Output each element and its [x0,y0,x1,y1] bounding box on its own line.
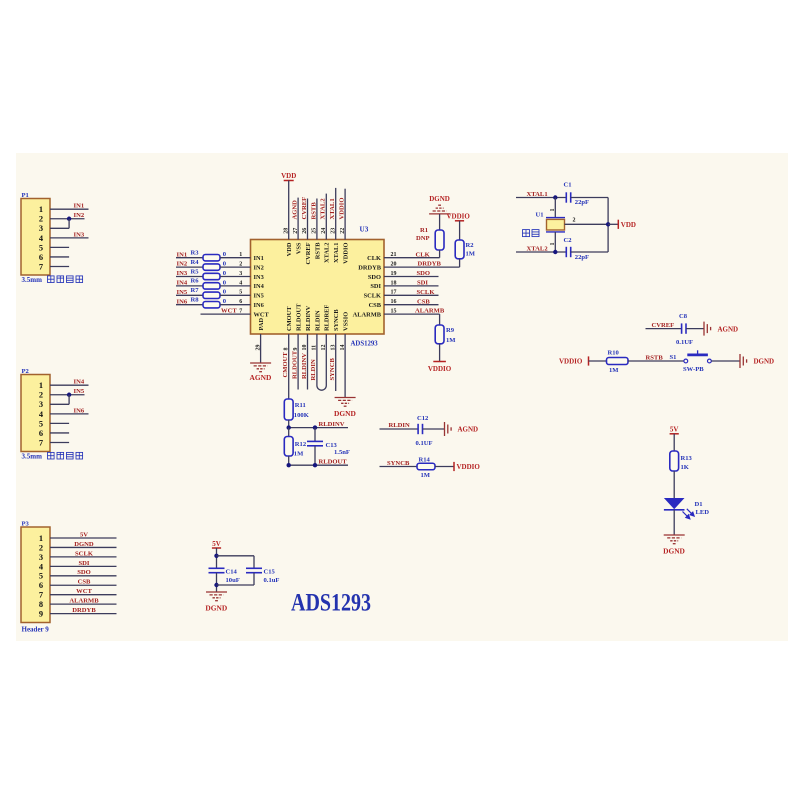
junction R11/R12 [287,425,291,429]
svg-text:R9: R9 [446,327,455,334]
resistor R2 [455,240,474,259]
svg-text:VDDIO: VDDIO [339,198,346,220]
svg-text:DGND: DGND [74,541,94,548]
wire P3 pin7 [50,594,117,596]
svg-text:U1: U1 [536,212,544,219]
svg-text:WCT: WCT [254,311,270,318]
svg-text:R8: R8 [191,297,200,304]
junction VDD bus [606,222,610,226]
wire U3 pin 25 (RSTB) [316,199,318,240]
svg-text:RLDIN: RLDIN [310,359,317,380]
svg-text:2: 2 [39,391,43,400]
wire IN3 to R5 [176,276,203,278]
wire U3 pin 27 (AGND) [297,198,299,240]
svg-text:8: 8 [39,600,43,609]
crystal U1 [536,212,566,232]
svg-text:VDD: VDD [286,242,293,256]
svg-text:RLDOUT: RLDOUT [319,459,348,466]
wire U3 pin 24 (XTAL2) [325,194,327,240]
power VDDIO near R2 [447,212,471,221]
wire U3 pin 8 [288,334,290,399]
svg-text:SDO: SDO [417,270,431,277]
wire XTAL2 [516,251,566,253]
svg-text:IN3: IN3 [254,274,264,281]
svg-text:SYNCB: SYNCB [333,309,340,331]
wire R2 to DRDYB [459,259,461,267]
power VDDIO left of R10 [559,356,589,365]
wire P2 pin3 stub [50,403,69,405]
capacitor C14 [209,568,238,575]
wire crystal pin2 to VDD [565,223,609,225]
power 5V above C14 [212,540,221,548]
wire U3 pin 26 (CVREF) [307,199,309,240]
wire RLDOUT horizontal [289,464,348,466]
ground DGND below C14 [205,592,227,613]
resistor R14 [417,457,435,470]
svg-text:5V: 5V [212,540,221,548]
wire U3 pin 15 net ALARMB [384,313,440,315]
svg-text:R12: R12 [295,441,307,448]
wire R12 to bottom junction [288,456,290,465]
svg-text:14: 14 [340,345,346,351]
svg-text:AGND: AGND [458,426,479,434]
svg-text:4: 4 [239,280,242,286]
resistor R8 [191,297,221,308]
svg-text:RLDINV: RLDINV [305,305,312,331]
wire VDDIO to R10 [589,360,607,362]
svg-text:SDI: SDI [370,283,381,290]
svg-text:RLDINV: RLDINV [301,353,308,379]
wire P2 pin5 stub [50,422,69,424]
svg-text:20: 20 [391,262,397,268]
ground DGND below U3 pin 14 [334,398,356,419]
svg-text:C12: C12 [417,415,429,422]
svg-text:CSB: CSB [78,579,91,586]
svg-text:VDDIO: VDDIO [559,358,583,366]
capacitor C2 [564,237,573,257]
svg-text:22pF: 22pF [575,199,589,206]
svg-text:24: 24 [321,228,327,234]
svg-text:12: 12 [321,345,327,351]
svg-text:1: 1 [550,209,556,212]
wire R13 to D1 [673,471,675,498]
wire U3 pin 19 net SDO [384,276,439,278]
svg-text:8: 8 [283,348,289,351]
resistor R9 [435,325,455,344]
svg-text:R2: R2 [466,242,475,249]
schematic sheet background [16,153,788,641]
wire P2 pin1 to IN4 [50,384,89,386]
svg-text:IN2: IN2 [74,212,85,219]
svg-text:SDI: SDI [417,280,428,287]
wire R1 to CLK [439,250,441,258]
junction C13 top [313,425,317,429]
svg-text:1M: 1M [466,250,476,257]
svg-text:1M: 1M [421,472,431,479]
resistor R7 [191,287,221,298]
wire P2 pin6 stub [50,432,69,434]
svg-text:23: 23 [330,228,336,234]
junction bottom rail [214,583,218,587]
junction top rail [214,554,218,558]
wire IN5 to R7 [176,294,203,296]
wire loop RLDIN-RLDREF [317,386,326,391]
svg-text:VDDIO: VDDIO [447,212,471,220]
junction C13 bottom [313,463,317,467]
svg-text:C2: C2 [564,237,573,244]
svg-text:RLDREF: RLDREF [324,305,331,331]
svg-text:R4: R4 [191,259,200,266]
wire S1 to DGND [711,360,740,362]
svg-text:LED: LED [696,509,710,516]
svg-text:PAD: PAD [258,317,265,330]
svg-text:C15: C15 [264,568,276,575]
wire IN6 to R8 [176,304,203,306]
svg-text:SCLK: SCLK [75,550,94,557]
svg-text:1: 1 [39,205,43,214]
wire junction down to pin3 [68,219,70,229]
wire U3 pin 12 [325,334,327,386]
wire P3 pin5 [50,575,117,577]
svg-text:3: 3 [39,553,43,562]
wire P1 pin3 stub [50,227,69,229]
wire C12 to AGND [423,428,445,430]
power VDD right of crystal [618,220,636,229]
wire CVREF to C8 [646,328,682,330]
wire P3 pin3 [50,556,117,558]
svg-text:1.5nF: 1.5nF [334,449,350,456]
ground AGND below U3 [250,363,272,382]
svg-text:CVREF: CVREF [301,197,308,220]
wire P3 pin6 [50,584,117,586]
svg-text:AGND: AGND [718,325,739,333]
svg-text:6: 6 [239,299,242,305]
svg-text:RSTB: RSTB [646,355,664,362]
svg-text:6: 6 [39,581,43,590]
svg-text:3.5mm: 3.5mm [22,453,43,461]
ground AGND right of C12 [445,422,479,436]
svg-text:R10: R10 [608,349,620,356]
resistor R11 [284,399,306,420]
wire junction down to P2 pin3 [68,395,70,405]
wire VDDIO to R2 [459,221,461,240]
power 5V above R13 [670,426,679,434]
svg-text:27: 27 [293,228,299,234]
svg-text:SCLK: SCLK [364,293,381,300]
svg-text:S1: S1 [670,354,677,361]
wire RLDIN to C12 [380,428,419,430]
svg-text:1M: 1M [446,337,456,344]
svg-text:ALARMB: ALARMB [69,598,99,605]
svg-text:5: 5 [39,419,43,428]
resistor R10 [607,349,629,364]
wire to VDD power [608,223,618,225]
svg-text:R3: R3 [191,250,200,257]
svg-text:R6: R6 [191,278,200,285]
svg-text:26: 26 [302,228,308,234]
wire bottom rail [217,584,255,586]
wire P1 pin4 to IN3 [50,237,89,239]
svg-text:U3: U3 [360,226,369,234]
svg-text:16: 16 [391,299,397,305]
svg-text:C13: C13 [326,442,338,449]
wire IN4 to R6 [176,285,203,287]
svg-text:RSTB: RSTB [314,242,321,259]
junction XTAL2/crystal [553,250,557,254]
capacitor C8 [679,313,688,334]
capacitor C13 [307,441,338,449]
wire WCT to U3 pin 7 [201,313,251,315]
svg-text:R14: R14 [419,457,431,464]
svg-text:IN2: IN2 [254,264,264,271]
svg-text:DRDYB: DRDYB [418,261,442,268]
wire 5V down to C14 [216,548,218,568]
svg-text:SDO: SDO [368,274,381,281]
svg-text:D1: D1 [695,501,703,508]
svg-text:SW-PB: SW-PB [683,366,704,373]
wire C2 to right bus [571,251,608,253]
svg-text:2: 2 [239,262,242,268]
svg-text:VDD: VDD [281,172,296,180]
svg-text:SDO: SDO [77,569,91,576]
svg-text:1: 1 [239,252,242,258]
svg-text:CVREF: CVREF [305,242,312,264]
wire U3 pin 16 net CSB [384,304,439,306]
wire DGND to R1 [439,214,441,230]
svg-text:IN3: IN3 [74,231,85,238]
svg-text:SDI: SDI [79,560,90,567]
capacitor C1 [564,182,572,203]
svg-text:RLDIN: RLDIN [314,310,321,331]
svg-text:VDDIO: VDDIO [343,242,350,263]
IC U3 ADS1293 body [251,226,385,348]
wire R14 to VDDIO [435,466,454,468]
connector P1 [21,192,50,275]
P1 caption 3.5mm headphone jack [22,276,83,284]
wire P1 pin7 stub [50,266,69,268]
svg-text:R5: R5 [191,268,200,275]
wire RLDINV horizontal [289,427,348,429]
LED D1 [664,498,709,519]
svg-text:IN4: IN4 [74,379,85,386]
svg-text:ADS1293: ADS1293 [291,590,371,617]
svg-text:2: 2 [573,218,576,224]
svg-text:CSB: CSB [369,302,382,309]
svg-text:Header 9: Header 9 [22,626,50,634]
svg-text:19: 19 [391,271,397,277]
svg-text:2: 2 [39,543,43,552]
wire P3 pin2 [50,546,117,548]
resistor R1 [420,227,444,250]
svg-text:22pF: 22pF [575,254,589,261]
svg-text:CLK: CLK [367,255,381,262]
resistor R4 [191,259,221,270]
svg-text:CLK: CLK [416,251,431,258]
svg-text:10uF: 10uF [226,577,240,584]
ground AGND right of C8 [704,322,738,336]
svg-text:R1: R1 [420,227,428,234]
wire C15 top stub [253,556,255,569]
svg-text:IN6: IN6 [254,302,265,309]
svg-text:R7: R7 [191,287,200,294]
wire U3 pin 13 [335,334,337,391]
svg-text:3: 3 [39,224,43,233]
crystal caption [523,230,540,237]
wire 5V to R13 [673,434,675,451]
wire XTAL1 [516,197,566,199]
wire P3 pin4 [50,565,117,567]
svg-text:R11: R11 [295,402,306,409]
connector P3 [21,521,50,623]
svg-text:1M: 1M [609,367,619,374]
svg-text:28: 28 [283,228,289,234]
wire U3 pin 20 net DRDYB [384,266,460,268]
wire U3 pin 14 [344,334,346,398]
svg-text:1: 1 [550,243,556,246]
svg-text:IN6: IN6 [74,407,85,414]
junction R12 bottom [287,463,291,467]
wire C8 to AGND [686,328,704,330]
svg-text:DRDYB: DRDYB [358,264,381,271]
wire R4 to U3 pin 2 [220,266,251,268]
svg-text:5V: 5V [670,426,679,434]
wire R8 to U3 pin 6 [220,304,251,306]
svg-text:RLDINV: RLDINV [319,421,345,428]
svg-text:ALARMB: ALARMB [353,311,382,318]
wire IN2 to R4 [176,266,203,268]
svg-text:17: 17 [391,290,397,296]
svg-text:21: 21 [391,252,397,258]
svg-text:DGND: DGND [429,195,450,203]
svg-text:VDDIO: VDDIO [428,365,452,373]
svg-text:DGND: DGND [205,604,227,613]
svg-text:7: 7 [39,262,43,271]
svg-text:5: 5 [39,572,43,581]
P2 caption 3.5mm headphone jack [22,452,83,460]
capacitor C12 [417,415,429,434]
wire P1 pin1 to IN1 [50,208,89,210]
resistor R12 [284,437,307,457]
svg-text:9: 9 [39,610,43,619]
svg-text:7: 7 [39,591,43,600]
svg-text:22: 22 [340,228,346,234]
svg-text:3: 3 [239,271,242,277]
svg-text:6: 6 [39,429,43,438]
svg-text:5: 5 [239,290,242,296]
svg-text:5V: 5V [80,531,88,538]
wire crystal pin1 stub [554,198,556,218]
svg-text:XTAL1: XTAL1 [333,243,340,263]
ground DGND below D1 [663,535,685,555]
svg-text:XTAL2: XTAL2 [320,198,327,220]
svg-text:SYNCB: SYNCB [329,358,336,381]
svg-text:1K: 1K [681,464,690,471]
svg-text:IN5: IN5 [254,293,264,300]
svg-text:3.5mm: 3.5mm [22,276,43,284]
svg-text:7: 7 [39,438,43,447]
svg-text:DRDYB: DRDYB [72,607,96,614]
junction P2 pin2/pin3 [67,393,71,397]
svg-text:DGND: DGND [754,358,775,366]
junction P1 pin2/pin3 [67,217,71,221]
svg-text:2: 2 [39,215,43,224]
ground DGND above R1 [429,195,450,214]
svg-text:25: 25 [312,228,318,234]
power VDD [281,172,296,180]
wire R11 to junction [288,420,290,428]
svg-text:C1: C1 [564,182,572,189]
svg-text:1: 1 [39,534,43,543]
wire P2 pin4 to IN6 [50,413,89,415]
svg-text:29: 29 [255,345,261,351]
svg-text:IN1: IN1 [254,255,264,262]
wire ALARMB to R9 [439,314,441,325]
wire junction to R12 [288,428,290,437]
svg-text:SCLK: SCLK [417,289,436,296]
svg-text:VDD: VDD [621,221,636,229]
wire C13 top stub [314,428,316,442]
svg-text:13: 13 [330,345,336,351]
wire P1 pin5 stub [50,246,69,248]
wire U3 pin 17 net SCLK [384,294,439,296]
svg-text:7: 7 [239,309,242,315]
svg-text:IN4: IN4 [254,283,265,290]
resistor R6 [191,278,221,289]
wire SYNCB to R14 [380,466,418,468]
svg-text:CMOUT: CMOUT [286,306,293,331]
connector P2 [21,368,50,452]
wire U3 pin 11 [316,334,318,386]
svg-text:C14: C14 [226,568,238,575]
wire C13 bottom stub [314,446,316,465]
wire C1 to right bus [571,197,608,199]
wire U3 pin 21 net CLK [384,257,440,259]
wire P2 pin2 to IN5 [50,394,85,396]
wire U3 pin 23 (XTAL1) [335,188,337,240]
wire P2 pin7 stub [50,442,69,444]
svg-text:CMOUT: CMOUT [282,352,289,378]
svg-text:C8: C8 [679,313,688,320]
svg-text:5: 5 [39,243,43,252]
svg-text:RLDOUT: RLDOUT [296,303,303,331]
wire U3 pin 9 [297,334,299,390]
wire U3 pin 10 [307,334,309,390]
svg-text:VSS: VSS [296,242,303,254]
svg-text:VSSIO: VSSIO [343,312,350,331]
wire P3 pin8 [50,603,117,605]
svg-text:6: 6 [39,253,43,262]
svg-text:IN5: IN5 [74,388,85,395]
wire D1 to DGND [673,510,675,535]
power VDDIO below R9 [428,362,452,373]
svg-text:100K: 100K [294,412,310,419]
wire P3 pin1 [50,537,117,539]
wire R7 to U3 pin 5 [220,294,251,296]
svg-text:RLDOUT: RLDOUT [291,350,298,379]
svg-text:1: 1 [39,381,43,390]
wire P1 pin6 stub [50,256,69,258]
junction XTAL1/crystal [553,195,557,199]
wire R6 to U3 pin 4 [220,285,251,287]
svg-text:9: 9 [293,348,299,351]
svg-text:DGND: DGND [663,546,685,555]
svg-text:RLDIN: RLDIN [389,422,410,429]
wire R9 to VDDIO [439,344,441,362]
svg-text:CSB: CSB [417,298,430,305]
svg-text:18: 18 [391,280,397,286]
wire top rail [217,555,255,557]
wire IN1 to R3 [176,257,203,259]
